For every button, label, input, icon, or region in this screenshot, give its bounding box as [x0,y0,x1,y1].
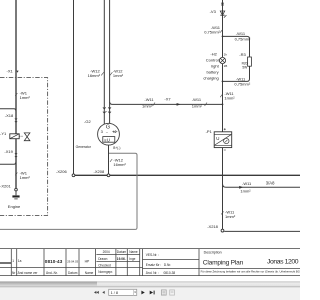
svg-text:-W11: -W11 [236,31,246,36]
svg-text:19.06.: 19.06. [117,257,126,261]
svg-text:HP: HP [85,260,90,264]
svg-text:-W11: -W11 [192,97,202,102]
svg-text:Control: Control [206,58,219,63]
svg-text:3/A8: 3/A8 [266,180,275,185]
svg-text:Normgepr.: Normgepr. [98,270,113,274]
svg-text:1mm²: 1mm² [113,73,124,78]
svg-text:Name: Name [85,271,94,275]
svg-text:-X208: -X208 [94,169,105,174]
svg-text:0,75mm²: 0,75mm² [204,29,220,34]
svg-text:2004: 2004 [103,250,110,254]
svg-text:light: light [211,63,219,68]
svg-text:Ersatz für : D.Nr.: Ersatz für : D.Nr. [146,263,172,267]
svg-text:16mm²: 16mm² [88,73,101,78]
svg-text:1 / 8: 1 / 8 [111,291,118,295]
svg-text:Clamping Plan: Clamping Plan [203,259,244,266]
svg-text:Änd name ver: Änd name ver [18,271,39,275]
svg-text:1: 1 [12,259,14,263]
svg-text:-X218: -X218 [207,224,218,229]
svg-text:Inge: Inge [129,257,135,261]
svg-text:16mm²: 16mm² [113,162,126,167]
svg-text:>: > [106,110,108,114]
svg-text:Checked: Checked [98,263,111,267]
svg-text:0,75mm²: 0,75mm² [234,81,250,86]
svg-text:battery: battery [206,69,218,74]
svg-text:-P1: -P1 [206,129,213,134]
svg-text:-X19: -X19 [4,149,13,154]
svg-text:VES-Nr. :: VES-Nr. : [146,253,159,257]
svg-text:2h: 2h [224,52,228,56]
svg-text:1a: 1a [18,259,22,263]
svg-text:≥U: ≥U [104,137,110,142]
svg-text:1mm²: 1mm² [142,104,153,109]
svg-text:Für diese Zeichnung behalten w: Für diese Zeichnung behalten wir uns all… [201,270,300,274]
svg-text:B+(-): B+(-) [113,146,120,150]
svg-text:1mm²: 1mm² [240,188,251,193]
svg-text:-X206: -X206 [56,169,67,174]
svg-text:-X201: -X201 [0,184,11,189]
svg-text:-G2: -G2 [84,119,91,124]
svg-text:-Y1: -Y1 [0,131,7,136]
svg-text:Engine: Engine [8,204,21,209]
svg-text:-V3: -V3 [210,9,217,14]
svg-text:-X1: -X1 [7,69,14,74]
svg-text:Name: Name [129,250,138,254]
svg-text:1mm²: 1mm² [224,95,235,100]
svg-text:1mm²: 1mm² [192,104,203,109]
svg-text:Änd.-Nr.: Änd.-Nr. [46,271,58,275]
svg-text:0810-43: 0810-43 [45,259,63,264]
svg-text:Drawn: Drawn [98,257,107,261]
svg-text:-W11: -W11 [144,97,154,102]
svg-text:2B: 2B [224,64,228,68]
svg-text:-W11: -W11 [242,181,252,186]
svg-text:Generator: Generator [76,145,92,149]
svg-text:-R3: -R3 [239,52,246,57]
svg-text:-H2: -H2 [210,52,217,57]
svg-text:charging: charging [203,75,218,80]
svg-text:Datum: Datum [117,250,127,254]
svg-text:U: U [216,136,219,141]
svg-text:Jonas 1200: Jonas 1200 [267,259,299,266]
svg-text:Datum: Datum [68,271,78,275]
svg-text:-X7: -X7 [164,97,171,102]
svg-text:-X18: -X18 [5,113,14,118]
svg-text:Änd. Nr. : 0810-38: Änd. Nr. : 0810-38 [146,271,176,275]
svg-text:5W: 5W [242,66,247,70]
svg-text:Description: Description [204,250,222,254]
svg-text:29.04.03: 29.04.03 [67,259,78,263]
svg-text:1mm²: 1mm² [225,214,236,219]
svg-text:1mm²: 1mm² [20,95,31,100]
svg-text:1mm²: 1mm² [20,175,31,180]
svg-text:0,75mm²: 0,75mm² [235,36,251,41]
